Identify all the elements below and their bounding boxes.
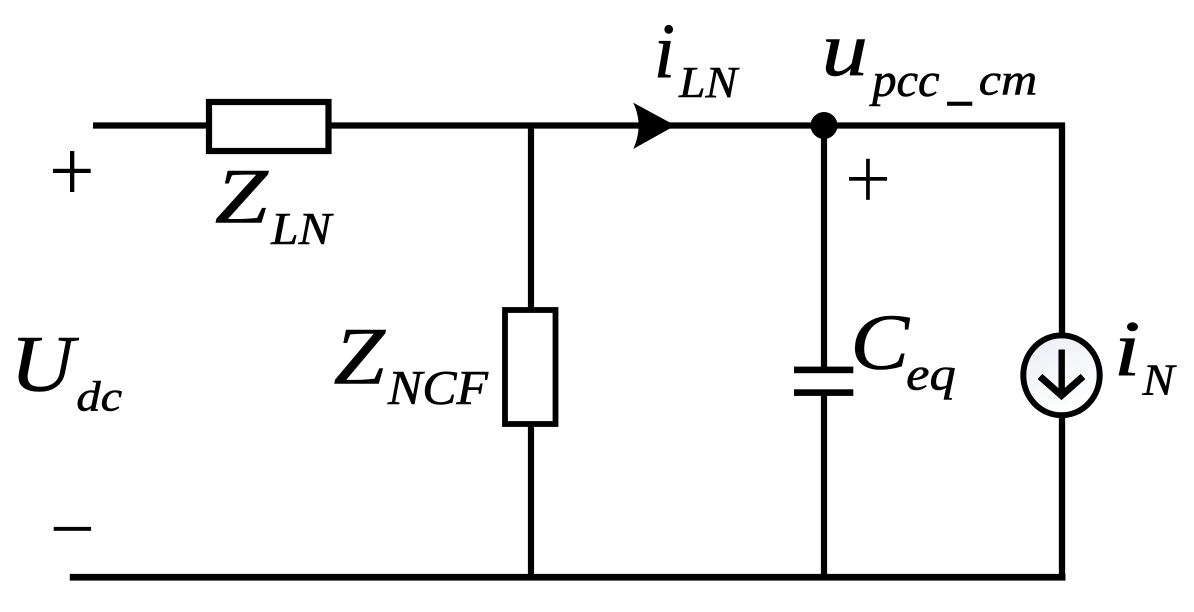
- svg-text:i: i: [654, 7, 676, 95]
- current source i_N circle: [1023, 335, 1099, 415]
- wire: current source to bottom rail: [1059, 414, 1065, 580]
- resistor Z_LN: [209, 102, 329, 151]
- minus sign of Udc source: [54, 527, 91, 531]
- svg-text:eq: eq: [906, 348, 956, 400]
- svg-text:dc: dc: [76, 372, 122, 420]
- plus sign at capacitor: [849, 159, 887, 200]
- label Z_LN: [215, 153, 334, 255]
- current arrow i_LN: [633, 103, 675, 149]
- svg-text:N: N: [1142, 355, 1177, 404]
- svg-text:C: C: [850, 299, 910, 387]
- plus sign of Udc source: [53, 151, 91, 192]
- label C_eq: [850, 299, 955, 400]
- svg-text:LN: LN: [270, 205, 334, 255]
- wire: capacitor to bottom rail: [821, 394, 827, 580]
- wire: Z_NCF to bottom rail: [528, 424, 534, 580]
- current source arrow: [1040, 350, 1083, 396]
- label U_dc: [10, 320, 122, 419]
- resistor Z_NCF: [505, 310, 556, 424]
- wire: top rail from Z_LN to top-right corner: [328, 122, 1065, 128]
- svg-text:i: i: [1114, 306, 1141, 394]
- wire: bottom rail: [70, 574, 1066, 581]
- svg-text:cm: cm: [979, 56, 1037, 105]
- svg-text:Z: Z: [333, 310, 386, 401]
- svg-text:Z: Z: [215, 153, 270, 240]
- label i_LN: [654, 7, 740, 107]
- svg-text:LN: LN: [678, 57, 740, 106]
- label Z_NCF: [333, 310, 489, 414]
- svg-text:U: U: [10, 320, 79, 408]
- label u_pcc_cm: [821, 6, 1037, 106]
- label i_N: [1114, 306, 1177, 404]
- capacitor C_eq bottom plate: [794, 389, 853, 396]
- svg-text:pcc: pcc: [869, 54, 939, 106]
- wire: right branch from top rail to current source: [1059, 123, 1065, 337]
- svg-text:NCF: NCF: [387, 360, 489, 414]
- wire: junction vertical to Z_NCF: [528, 126, 534, 311]
- wire: node down to capacitor: [821, 126, 827, 369]
- wire: left lead from Udc plus terminal: [93, 122, 209, 128]
- capacitor C_eq top plate: [794, 367, 853, 374]
- node dot u_pcc_cm: [811, 112, 838, 139]
- svg-text:u: u: [821, 6, 868, 92]
